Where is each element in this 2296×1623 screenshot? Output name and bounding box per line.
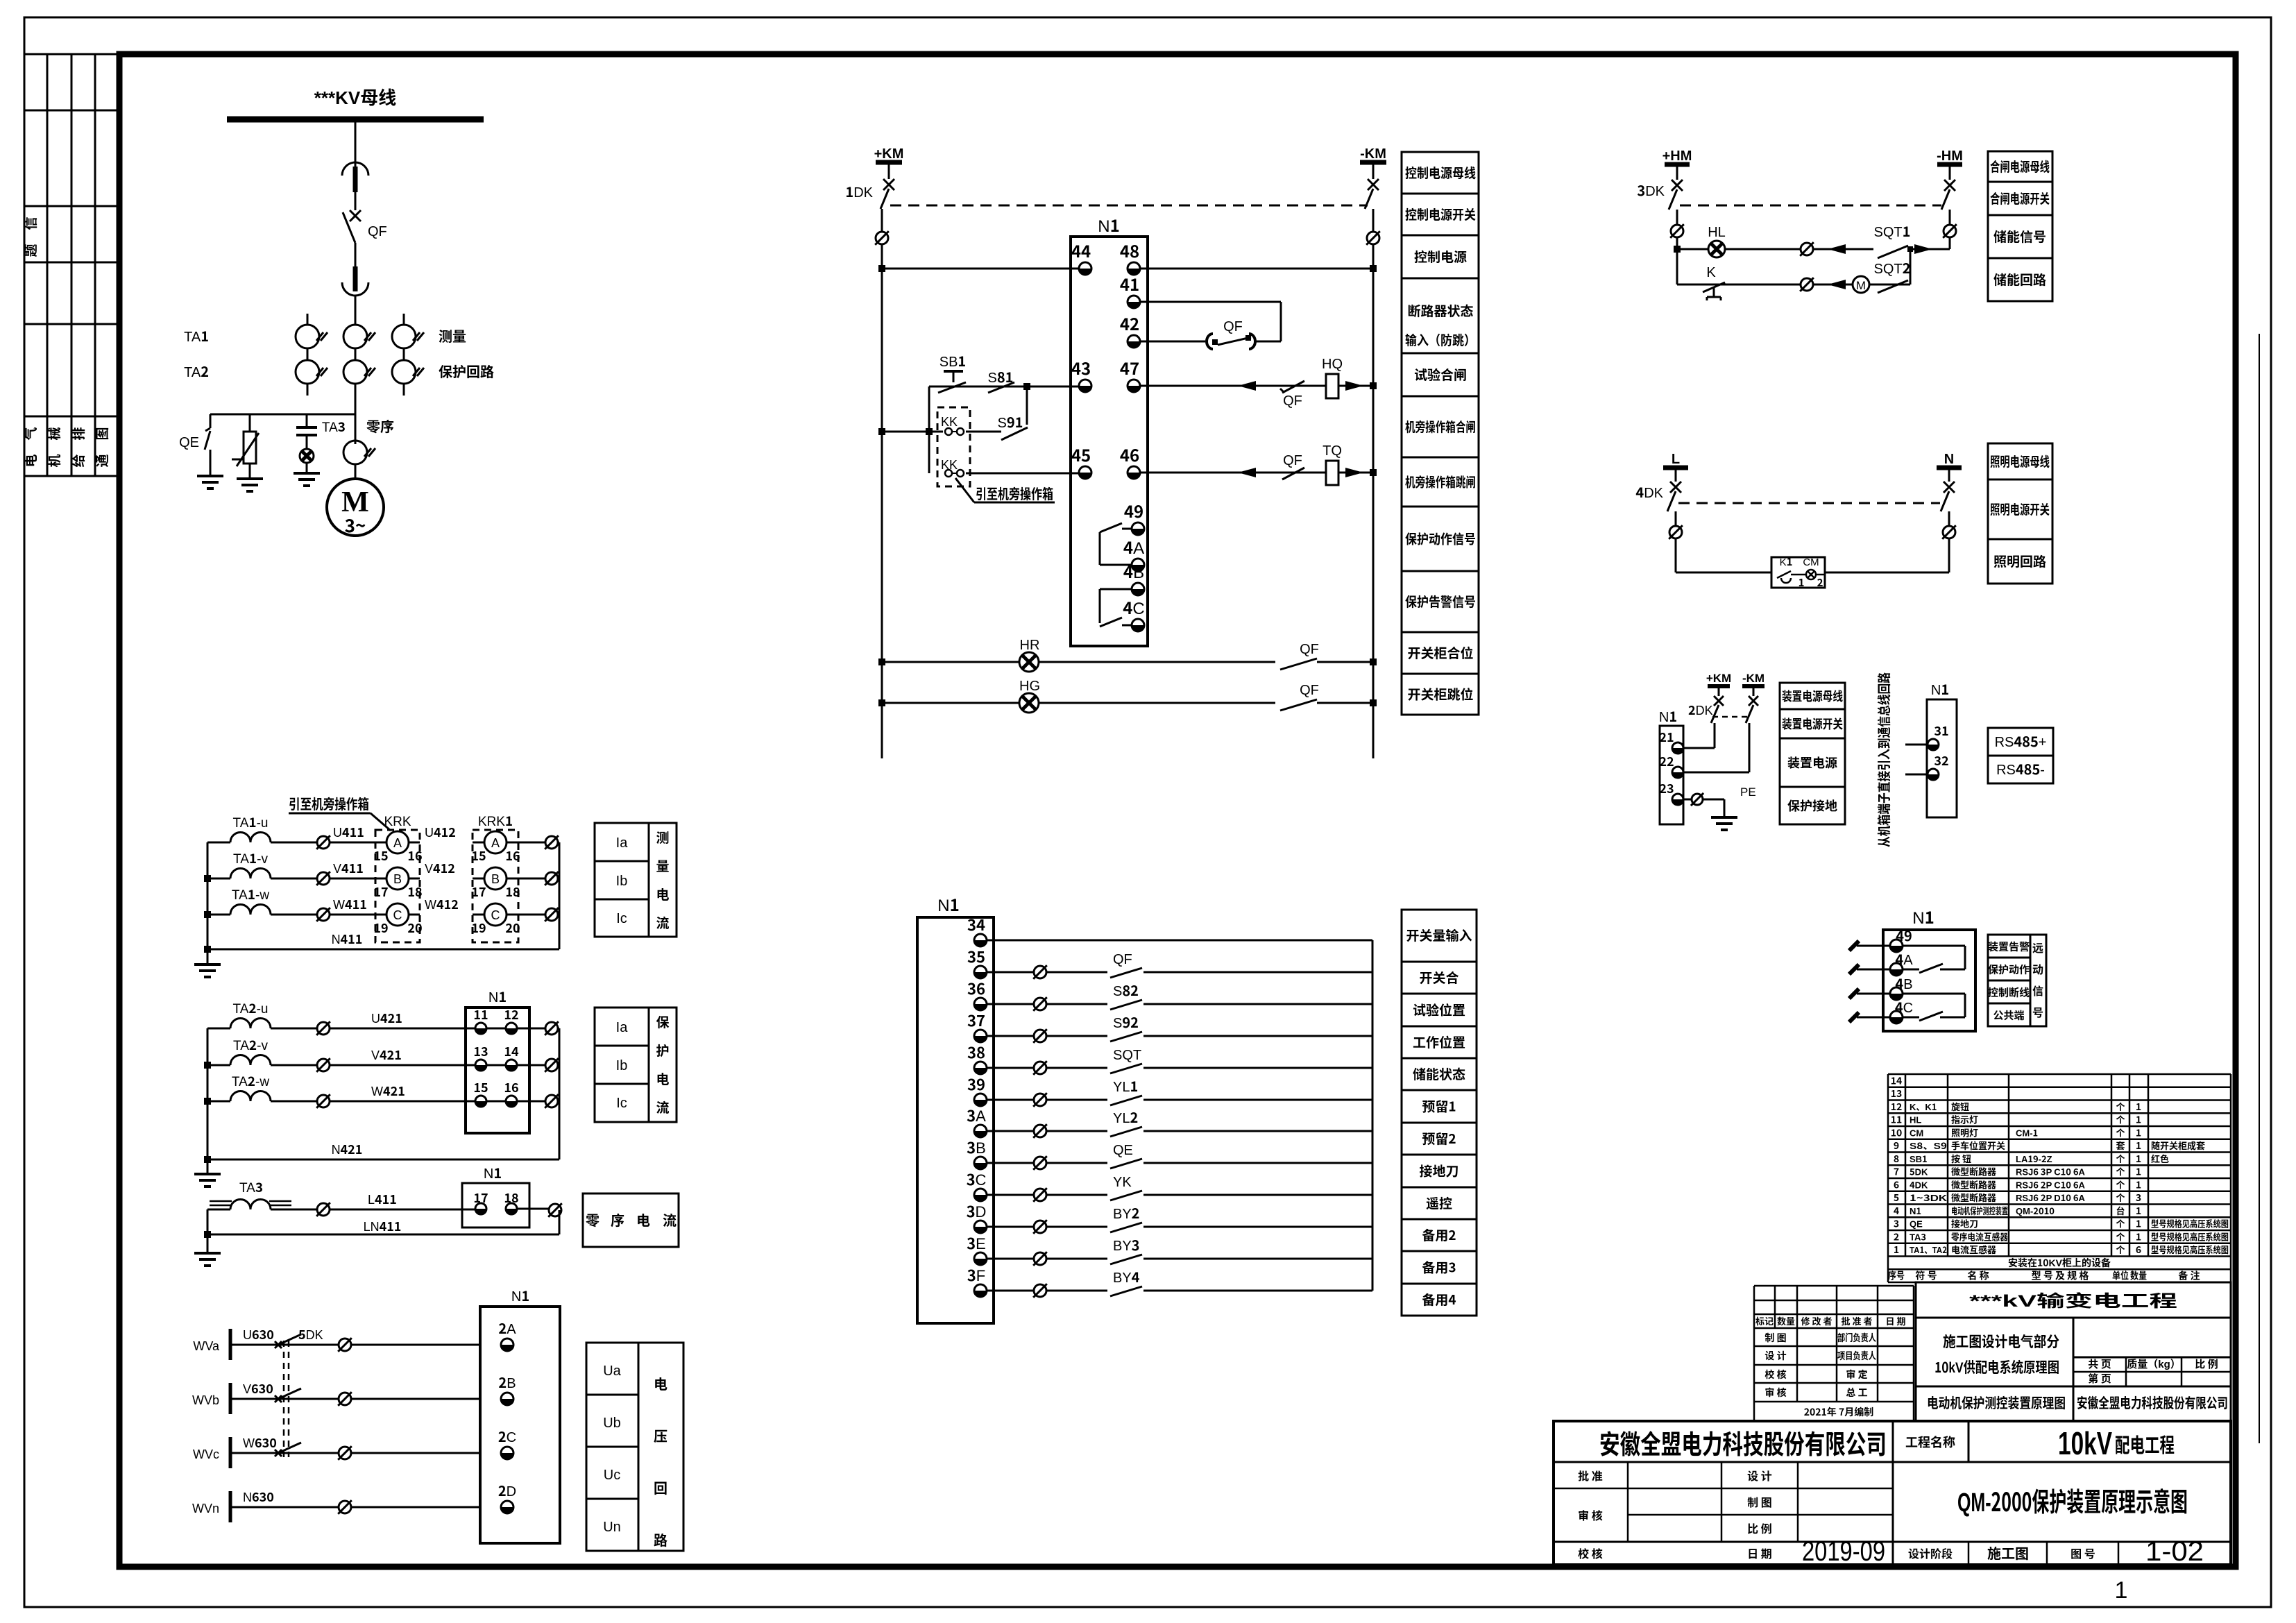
svg-text:C: C xyxy=(393,906,402,924)
svg-text:1: 1 xyxy=(2136,1100,2141,1114)
svg-text:个: 个 xyxy=(2116,1125,2125,1139)
terminal 37 (binary input) xyxy=(967,1009,987,1042)
svg-text:KRK: KRK xyxy=(384,811,411,830)
CT winding TA3 (zero sequence) xyxy=(207,1178,475,1209)
svg-text:1~3DK: 1~3DK xyxy=(1910,1191,1948,1204)
svg-text:WVn: WVn xyxy=(192,1499,219,1517)
wire SB1 row to terminal 43 xyxy=(929,383,1079,390)
cell 审核 xyxy=(1578,1506,1603,1523)
svg-text:N1: N1 xyxy=(511,1285,529,1305)
svg-text:L411: L411 xyxy=(368,1190,397,1208)
CT winding TA2-v xyxy=(207,1035,475,1065)
terminal 3E (binary input) xyxy=(967,1232,987,1265)
svg-text:S8、S9: S8、S9 xyxy=(1910,1139,1947,1152)
function label column (lighting) xyxy=(1988,443,2052,584)
CT TA2 (protection row) xyxy=(184,360,494,384)
terminal 34 (binary input) xyxy=(967,913,987,946)
function label box (remote signal) xyxy=(1988,935,2046,1026)
wire KK to S91 xyxy=(966,431,1001,433)
svg-text:QF: QF xyxy=(1113,948,1132,968)
svg-text:10kV: 10kV xyxy=(2058,1425,2112,1461)
voltage phase row WVc xyxy=(193,1426,516,1468)
svg-text:2DK: 2DK xyxy=(1688,701,1713,719)
TA2 wire labels and terminals xyxy=(316,1009,559,1108)
svg-text:电动机保护测控装置: 电动机保护测控装置 xyxy=(1951,1204,2008,1217)
svg-text:CM: CM xyxy=(1803,554,1819,569)
binary input row 3B contact QE xyxy=(987,1139,1372,1170)
terminal 3D (binary input) xyxy=(967,1200,987,1233)
svg-text:个: 个 xyxy=(2116,1100,2125,1113)
svg-text:装置电源: 装置电源 xyxy=(1787,754,1837,772)
terminal 23 xyxy=(1659,779,1683,805)
svg-text:RSJ6 2P D10 6A: RSJ6 2P D10 6A xyxy=(2016,1191,2086,1204)
svg-text:Uc: Uc xyxy=(604,1463,620,1484)
svg-text:U630: U630 xyxy=(243,1325,274,1343)
svg-text:12: 12 xyxy=(1891,1100,1903,1114)
svg-text:控制电源开关: 控制电源开关 xyxy=(1405,205,1476,223)
contact SQT1 xyxy=(1873,221,1913,258)
L power source xyxy=(1663,448,1688,482)
svg-text:从机箱端子直接引入到通信总线回路: 从机箱端子直接引入到通信总线回路 xyxy=(1874,672,1893,847)
svg-text:Ia: Ia xyxy=(616,831,629,851)
voltage phase row WVn xyxy=(192,1480,516,1522)
lighting linkage dashed line xyxy=(1678,502,1940,504)
svg-text:18: 18 xyxy=(407,883,422,901)
binary input row 35 contact QF xyxy=(987,948,1372,979)
terminal 46 (N1 control) xyxy=(1120,442,1140,479)
svg-text:2019-09: 2019-09 xyxy=(1802,1536,1885,1567)
terminal 49 (N1 control) xyxy=(1124,498,1144,535)
svg-text:RSJ6 3P C10 6A: RSJ6 3P C10 6A xyxy=(2016,1165,2086,1178)
svg-text:46: 46 xyxy=(1120,442,1139,466)
svg-text:审 核: 审 核 xyxy=(1578,1506,1603,1523)
branch vertical S81-S91 xyxy=(1026,386,1028,425)
contact S81 xyxy=(988,366,1014,393)
svg-text:+HM: +HM xyxy=(1663,144,1692,164)
lamp HG (open position) xyxy=(878,674,1377,713)
svg-text:18: 18 xyxy=(505,883,520,901)
svg-text:TA2-w: TA2-w xyxy=(232,1071,269,1090)
anti-pumping loop wire 41 xyxy=(1140,302,1281,341)
svg-text:微型断路器: 微型断路器 xyxy=(1951,1165,1996,1178)
svg-text:装置电源开关: 装置电源开关 xyxy=(1782,715,1843,733)
binary input common bus xyxy=(1372,940,1374,1291)
svg-text:Ub: Ub xyxy=(603,1411,621,1431)
left lighting rail xyxy=(1669,511,1683,572)
svg-text:1: 1 xyxy=(2136,1125,2141,1139)
box 安徽全盟电力科技股份有限公司 (small) xyxy=(2073,1386,2231,1421)
svg-text:Ua: Ua xyxy=(603,1359,621,1379)
svg-text:指示灯: 指示灯 xyxy=(1951,1113,1978,1126)
svg-text:1: 1 xyxy=(2136,1204,2141,1218)
svg-text:测: 测 xyxy=(656,828,669,847)
cell 批准 xyxy=(1578,1467,1603,1484)
svg-text:4A: 4A xyxy=(1895,949,1913,969)
svg-text:2A: 2A xyxy=(498,1318,516,1338)
TA1 ground xyxy=(194,949,221,977)
svg-text:22: 22 xyxy=(1659,752,1674,770)
device N1 case (power) xyxy=(1659,706,1683,824)
svg-text:型号规格见高压系统图: 型号规格见高压系统图 xyxy=(2151,1217,2229,1230)
svg-text:备用3: 备用3 xyxy=(1422,1258,1456,1277)
svg-text:引至机旁操作箱: 引至机旁操作箱 xyxy=(976,483,1053,503)
svg-text:气: 气 xyxy=(21,427,40,440)
svg-text:16: 16 xyxy=(504,1078,518,1096)
svg-text:3DK: 3DK xyxy=(1637,180,1665,200)
wire HQ to rail xyxy=(1338,381,1377,391)
wire rail to KK xyxy=(878,428,943,435)
terminals 11/12 (N1 CT) xyxy=(473,1005,559,1034)
svg-text:QF: QF xyxy=(368,220,387,240)
svg-text:保护动作信号: 保护动作信号 xyxy=(1405,529,1476,548)
svg-text:37: 37 xyxy=(967,1009,985,1031)
svg-text:装置电源母线: 装置电源母线 xyxy=(1782,687,1843,705)
svg-text:U421: U421 xyxy=(371,1009,402,1027)
coil TQ xyxy=(1323,439,1342,485)
plug KRK contact A xyxy=(373,831,422,865)
svg-text:23: 23 xyxy=(1659,779,1674,797)
wire TQ to rail xyxy=(1338,468,1377,477)
2DK linkage dashed xyxy=(1712,716,1747,718)
plug KRK1 dashed box xyxy=(473,811,518,942)
svg-text:备用4: 备用4 xyxy=(1422,1290,1456,1309)
svg-text:1: 1 xyxy=(2136,1165,2141,1179)
binary input row 38 contact SQT xyxy=(987,1044,1372,1075)
svg-text:合闸电源母线: 合闸电源母线 xyxy=(1990,157,2050,176)
N411 return wire xyxy=(207,930,559,949)
svg-text:接地刀: 接地刀 xyxy=(1419,1162,1459,1180)
svg-text:微型断路器: 微型断路器 xyxy=(1951,1178,1996,1191)
LN411 return wire xyxy=(207,1217,559,1235)
CT TA3 zero-sequence xyxy=(322,416,394,464)
svg-text:1: 1 xyxy=(2136,1178,2141,1191)
svg-text:排: 排 xyxy=(69,427,87,440)
svg-text:电动机保护测控装置原理图: 电动机保护测控装置原理图 xyxy=(1927,1392,2066,1412)
breaker 3DK xyxy=(1637,180,1683,210)
svg-text:TA1-u: TA1-u xyxy=(233,813,269,831)
svg-text:引至机旁操作箱: 引至机旁操作箱 xyxy=(289,793,369,813)
capacitor and discharge lamp xyxy=(294,427,320,486)
wire 2DK to 21 xyxy=(1683,723,1715,748)
svg-text:4C: 4C xyxy=(1895,996,1913,1017)
svg-text:控制电源母线: 控制电源母线 xyxy=(1405,163,1476,182)
TA3 wire labels xyxy=(316,1190,562,1217)
svg-text:机: 机 xyxy=(44,454,63,467)
svg-text:序号: 序号 xyxy=(1888,1269,1905,1283)
terminal 4A (remote) xyxy=(1890,949,1913,976)
coil HQ xyxy=(1322,352,1343,398)
svg-text:零: 零 xyxy=(586,1209,599,1230)
svg-text:18: 18 xyxy=(504,1189,518,1207)
svg-text:型号规格见高压系统图: 型号规格见高压系统图 xyxy=(2151,1243,2229,1256)
svg-text:第 页: 第 页 xyxy=(2088,1371,2111,1386)
svg-text:4B: 4B xyxy=(1123,559,1144,583)
svg-text:修 改 者: 修 改 者 xyxy=(1801,1314,1832,1327)
svg-text:保护动作: 保护动作 xyxy=(1988,962,2030,977)
svg-text:Ic: Ic xyxy=(616,1091,627,1112)
svg-text:TA2-v: TA2-v xyxy=(233,1035,268,1054)
svg-text:N1: N1 xyxy=(1912,904,1934,928)
wire 47 to HQ coil xyxy=(1140,381,1327,391)
svg-text:6: 6 xyxy=(1894,1178,1899,1191)
svg-text:1: 1 xyxy=(1798,575,1805,590)
svg-text:-HM: -HM xyxy=(1937,144,1963,164)
svg-text:15: 15 xyxy=(373,847,388,865)
label box metering current Ia/Ib/Ic xyxy=(595,823,677,937)
svg-text:17: 17 xyxy=(471,883,486,901)
terminal 21 xyxy=(1659,728,1683,754)
svg-text:SB1: SB1 xyxy=(939,350,966,371)
svg-text:31: 31 xyxy=(1934,722,1948,740)
fold mark line xyxy=(2259,334,2260,1443)
svg-text:19: 19 xyxy=(373,919,388,937)
device N1 case (control) xyxy=(1071,212,1148,646)
svg-text:路: 路 xyxy=(654,1529,667,1549)
wire 42 to QF aux contact xyxy=(1140,341,1205,343)
label box zero sequence current xyxy=(583,1193,679,1247)
terminal 48 (N1 control) xyxy=(1120,238,1140,275)
busbar ***KV xyxy=(227,84,484,119)
svg-text:保护接地: 保护接地 xyxy=(1787,797,1837,815)
terminal 32 xyxy=(1928,751,1949,780)
terminal 49 (remote) xyxy=(1890,925,1912,952)
svg-text:Ic: Ic xyxy=(616,907,627,927)
svg-text:39: 39 xyxy=(967,1073,985,1095)
TA3 left bus xyxy=(204,1209,211,1238)
terminal 4C (N1 control) xyxy=(1123,595,1145,631)
svg-text:YK: YK xyxy=(1113,1171,1132,1191)
terminal 3F (binary input) xyxy=(967,1264,987,1297)
revision table xyxy=(1754,1286,1914,1421)
svg-text:4C: 4C xyxy=(1123,595,1145,619)
svg-text:YL2: YL2 xyxy=(1113,1107,1138,1127)
terminal 45 (N1 control) xyxy=(1071,442,1091,479)
svg-text:旋钮: 旋钮 xyxy=(1951,1100,1969,1113)
lamp HR (closed position) xyxy=(878,634,1377,672)
storage linkage dashed line xyxy=(1680,205,1941,207)
contact 4B-4C (remote) xyxy=(1903,994,1965,1021)
wire terminal 48 to rail xyxy=(1140,265,1377,272)
breaker 2DK pole 1 xyxy=(1711,696,1724,723)
svg-text:CM-1: CM-1 xyxy=(2016,1125,2038,1139)
svg-text:比 例: 比 例 xyxy=(1747,1520,1772,1536)
svg-text:总 工: 总 工 xyxy=(1846,1386,1867,1400)
svg-text:制 图: 制 图 xyxy=(1764,1331,1786,1345)
left control rail +KM xyxy=(875,209,889,758)
svg-text:零序: 零序 xyxy=(366,416,394,436)
svg-text:试验位置: 试验位置 xyxy=(1413,1001,1465,1019)
sign-off table grid (left margin) xyxy=(24,54,119,476)
svg-text:WVc: WVc xyxy=(193,1445,219,1463)
svg-text:电流互感器: 电流互感器 xyxy=(1951,1243,1996,1256)
svg-text:1: 1 xyxy=(2136,1139,2141,1153)
box ***kV输变电工程 xyxy=(1916,1282,2231,1318)
svg-text:45: 45 xyxy=(1071,442,1091,466)
svg-text:安装在10KV柜上的设备: 安装在10KV柜上的设备 xyxy=(2008,1256,2111,1270)
svg-text:安徽全盟电力科技股份有限公司: 安徽全盟电力科技股份有限公司 xyxy=(1599,1423,1887,1461)
CT winding TA2-w xyxy=(207,1071,475,1101)
wire row 34 xyxy=(987,940,1372,942)
svg-text:TA3: TA3 xyxy=(1910,1230,1926,1243)
svg-text:S82: S82 xyxy=(1113,980,1139,1000)
svg-text:15: 15 xyxy=(473,1078,488,1096)
svg-text:试验合闸: 试验合闸 xyxy=(1414,365,1467,384)
svg-text:QF: QF xyxy=(1300,638,1319,658)
device N1 case (zero seq) xyxy=(462,1162,529,1227)
svg-text:11: 11 xyxy=(473,1005,488,1023)
svg-text:标记: 标记 xyxy=(1755,1314,1774,1327)
wire 23 to PE ground xyxy=(1683,782,1756,830)
terminal 4B (N1 control) xyxy=(1123,559,1144,595)
svg-text:3~: 3~ xyxy=(345,512,366,538)
svg-text:+KM: +KM xyxy=(1706,668,1731,686)
terminal 3B (binary input) xyxy=(967,1136,987,1169)
svg-text:LN411: LN411 xyxy=(364,1217,402,1235)
terminals 15/16 (N1 CT) xyxy=(473,1078,559,1107)
svg-text:设 计: 设 计 xyxy=(1764,1349,1786,1363)
svg-text:审 核: 审 核 xyxy=(1764,1386,1786,1400)
svg-text:2: 2 xyxy=(1817,575,1823,590)
svg-text:K: K xyxy=(1706,261,1716,281)
svg-text:W412: W412 xyxy=(425,895,459,913)
svg-text:16: 16 xyxy=(505,847,520,865)
svg-text:3: 3 xyxy=(2136,1191,2141,1205)
-KM power source xyxy=(1360,142,1386,179)
svg-text:2C: 2C xyxy=(498,1426,516,1446)
svg-text:-KM: -KM xyxy=(1742,668,1764,686)
function label column (control circuit) xyxy=(1402,152,1479,715)
wire TA3 to motor xyxy=(355,464,357,479)
svg-text:遥控: 遥控 xyxy=(1426,1193,1452,1212)
svg-text:13: 13 xyxy=(473,1042,488,1060)
svg-text:CM: CM xyxy=(1910,1125,1923,1139)
svg-text:预留2: 预留2 xyxy=(1422,1129,1456,1148)
svg-text:控制断线: 控制断线 xyxy=(1988,985,2030,1000)
svg-text:48: 48 xyxy=(1120,238,1139,262)
svg-text:制 图: 制 图 xyxy=(1747,1493,1772,1510)
svg-text:V412: V412 xyxy=(425,859,455,877)
svg-text:V421: V421 xyxy=(371,1046,402,1064)
svg-text:开关柜合位: 开关柜合位 xyxy=(1407,643,1473,662)
svg-text:Ib: Ib xyxy=(616,1054,628,1074)
wire busbar to QF xyxy=(355,119,357,167)
date 2019-09 xyxy=(1802,1536,1885,1567)
svg-text:型 号 及 规 格: 型 号 及 规 格 xyxy=(2032,1269,2089,1283)
BOM table contents xyxy=(1888,1073,2229,1282)
svg-text:L: L xyxy=(1672,448,1680,468)
svg-text:号: 号 xyxy=(2032,1003,2043,1020)
svg-text:2: 2 xyxy=(1894,1230,1899,1243)
svg-text:安徽全盟电力科技股份有限公司: 安徽全盟电力科技股份有限公司 xyxy=(2077,1392,2228,1412)
svg-text:图 号: 图 号 xyxy=(2070,1545,2095,1561)
branch wire to QE/arrester/capacitor xyxy=(210,414,355,432)
svg-text:V411: V411 xyxy=(333,859,364,877)
svg-text:41: 41 xyxy=(1120,271,1139,296)
svg-text:电: 电 xyxy=(656,885,669,903)
switch at -HM xyxy=(1941,180,1955,210)
device N1 case (remote signal) xyxy=(1883,904,1975,1031)
svg-text:4B: 4B xyxy=(1895,973,1912,993)
wire rail to terminal 44 xyxy=(878,265,1079,272)
function label column (storage circuit) xyxy=(1988,151,2052,301)
svg-text:图: 图 xyxy=(92,427,111,440)
binary input row 3A contact YL2 xyxy=(987,1107,1372,1138)
contact SQT2 xyxy=(1874,257,1911,293)
svg-text:流: 流 xyxy=(656,913,669,932)
terminal 3C (binary input) xyxy=(967,1168,987,1201)
svg-text:11: 11 xyxy=(1891,1113,1903,1127)
sheet number 1-02 xyxy=(2145,1536,2204,1567)
svg-text:日 期: 日 期 xyxy=(1886,1314,1906,1327)
cell 工程名称 xyxy=(1905,1433,1955,1451)
plug KRK1 contact B xyxy=(471,867,520,901)
arrow left K row xyxy=(1828,280,1846,289)
svg-text:5: 5 xyxy=(1894,1191,1899,1205)
terminal 38 (binary input) xyxy=(967,1041,987,1074)
svg-text:合闸电源开关: 合闸电源开关 xyxy=(1990,189,2050,207)
svg-text:N1: N1 xyxy=(488,986,507,1006)
svg-text:接地刀: 接地刀 xyxy=(1951,1217,1978,1230)
wire QF to CTs xyxy=(355,296,357,444)
page number 1 xyxy=(2115,1577,2128,1604)
contact QF (HG row) xyxy=(1275,679,1319,712)
svg-text:YL1: YL1 xyxy=(1113,1076,1138,1096)
switch at N xyxy=(1941,482,1955,511)
svg-text:4A: 4A xyxy=(1123,534,1144,559)
svg-text:12: 12 xyxy=(504,1005,518,1023)
svg-text:设计阶段: 设计阶段 xyxy=(1908,1545,1953,1561)
-HM power source xyxy=(1937,144,1963,180)
svg-text:HL: HL xyxy=(1910,1113,1921,1126)
terminal symbol HL row xyxy=(1800,242,1814,256)
svg-text:B: B xyxy=(491,869,500,887)
binary input row 39 contact YL1 xyxy=(987,1076,1372,1107)
svg-text:16: 16 xyxy=(407,847,422,865)
svg-text:3F: 3F xyxy=(967,1264,985,1286)
svg-text:压: 压 xyxy=(654,1425,667,1445)
+KM power source xyxy=(874,142,904,179)
TA1 wire labels and terminals xyxy=(316,823,559,921)
terminal 41 (N1 control) xyxy=(1120,271,1140,308)
branch vertical SQT1-SQT2 xyxy=(1910,249,1912,284)
binary input row 3C contact YK xyxy=(987,1171,1372,1202)
wire 2DK to 22 xyxy=(1683,723,1749,772)
svg-text:44: 44 xyxy=(1071,238,1091,262)
TA1 right bus xyxy=(559,842,561,949)
svg-text:BY4: BY4 xyxy=(1113,1266,1140,1286)
svg-text:TA1: TA1 xyxy=(184,325,209,346)
svg-text:RS485+: RS485+ xyxy=(1995,731,2047,751)
svg-text:1: 1 xyxy=(2136,1230,2141,1243)
arrow right HL row xyxy=(1914,244,1932,254)
contact K with manual actuator xyxy=(1703,261,1725,300)
TA2 ground xyxy=(194,1159,221,1187)
terminal 35 (binary input) xyxy=(967,945,987,978)
svg-text:信: 信 xyxy=(2032,982,2043,999)
svg-text:N1: N1 xyxy=(1931,679,1949,699)
binary input row 3D contact BY2 xyxy=(987,1203,1372,1234)
svg-text:个: 个 xyxy=(2116,1113,2125,1126)
svg-text:9: 9 xyxy=(1894,1139,1899,1153)
cell 图号 xyxy=(2070,1545,2095,1561)
svg-text:电: 电 xyxy=(21,454,40,467)
svg-text:***kV输变电工程: ***kV输变电工程 xyxy=(1969,1287,2177,1311)
svg-text:1: 1 xyxy=(2136,1152,2141,1166)
svg-text:B: B xyxy=(393,869,402,887)
wire 46 to TQ coil xyxy=(1140,468,1327,477)
switch at -KM xyxy=(1365,179,1379,209)
svg-text:QF: QF xyxy=(1300,679,1319,699)
